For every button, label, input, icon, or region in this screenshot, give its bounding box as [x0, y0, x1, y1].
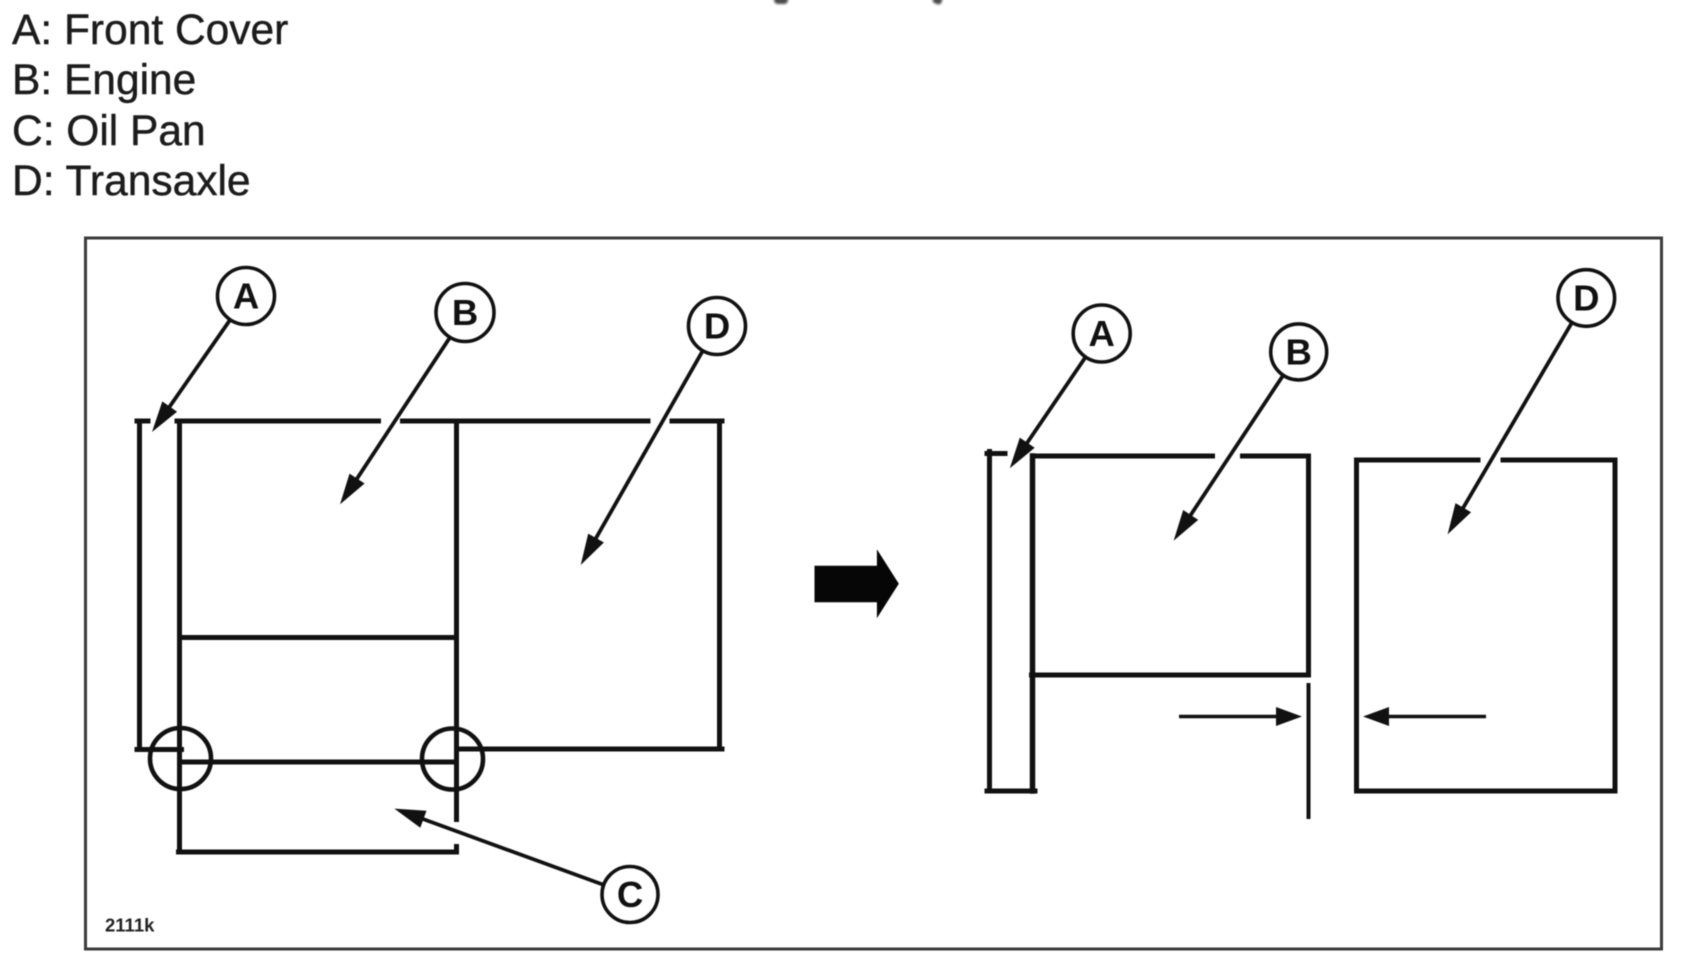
svg-text:B: B [1286, 331, 1312, 372]
front cover A top tick [137, 419, 148, 424]
leader arrow A (right view) [1019, 357, 1086, 455]
engine mid line [180, 635, 457, 640]
engine B (right view) bottom edge [1032, 673, 1309, 678]
front cover A strip (left view) vertical line [137, 419, 142, 753]
svg-text:2111k: 2111k [105, 915, 155, 936]
label circle C (left view) [602, 867, 658, 923]
oil pan bottom line [176, 850, 459, 855]
engine B (right view) top edge segment 1 [1033, 454, 1213, 459]
cropped heading remnant left [774, 0, 788, 4]
cropped heading remnant right [932, 0, 943, 5]
engine/transaxle top edge segment 2 (after B leader gap) [403, 419, 649, 424]
svg-text:B: B [452, 292, 478, 333]
leader arrow B (left view) [349, 338, 449, 490]
leader arrow D (left view) [589, 350, 703, 550]
leader arrow B (right view) [1183, 375, 1283, 526]
big black transform arrow [815, 549, 899, 618]
front cover A strip (right view) left edge [987, 452, 992, 792]
engine/transaxle shared vertical edge [454, 419, 459, 823]
front cover A strip (right view) right edge [1030, 456, 1036, 791]
svg-text:A: A [233, 276, 259, 317]
front cover A strip top tick [987, 451, 1005, 456]
svg-text:D: D [1573, 278, 1599, 319]
leader arrow C (left view) [410, 814, 603, 885]
transaxle D bottom edge (left view) [457, 747, 723, 752]
label circle B (left view) [436, 284, 494, 342]
label circle B (right view) [1271, 324, 1327, 380]
label circle A (left view) [218, 268, 275, 325]
engine/transaxle top edge segment 1 [177, 419, 379, 424]
outer diagram frame [86, 238, 1662, 949]
bolt circle right [422, 729, 483, 790]
oil pan top line [180, 760, 454, 765]
dimension extension line below engine right edge [1307, 683, 1311, 819]
transaxle D box right edge [1613, 460, 1618, 791]
transaxle D box top edge segment 1 [1357, 458, 1479, 463]
svg-text:A: A [1089, 313, 1115, 354]
svg-text:C: C [617, 874, 643, 915]
front cover A bottom tick [137, 747, 182, 752]
engine/transaxle top edge segment 3 (after D leader gap) [672, 419, 722, 424]
engine B / oil pan left edge (left view) [177, 419, 182, 855]
label circle D (left view) [689, 298, 746, 355]
legend text [12, 6, 288, 207]
engine B (right view) right edge [1306, 456, 1311, 675]
right dimension arrowhead [1363, 707, 1389, 726]
oil pan right edge lower stub [454, 844, 459, 855]
right dimension arrow shaft [1388, 715, 1486, 719]
transaxle D box top edge segment 2 (after D leader gap) [1503, 458, 1615, 463]
transaxle D box (right view) left edge [1354, 460, 1359, 791]
front cover A strip bottom edge [987, 789, 1035, 794]
bolt circle left [150, 728, 211, 789]
label circle D (right view) [1558, 270, 1615, 327]
transaxle D box bottom edge [1357, 789, 1616, 794]
leader arrow A (left view) [162, 320, 230, 418]
left dimension arrow shaft [1179, 715, 1278, 719]
transaxle D right edge (left view) [717, 419, 722, 752]
leader arrow D (right view) [1456, 322, 1572, 519]
engine B (right view) top edge segment 2 (after B leader gap) [1243, 454, 1309, 459]
svg-text:D: D [704, 306, 730, 347]
left dimension arrowhead [1276, 707, 1302, 726]
label circle A (right view) [1073, 305, 1130, 362]
